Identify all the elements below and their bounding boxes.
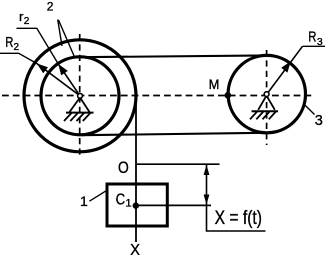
svg-text:3: 3 (315, 113, 323, 129)
svg-text:M: M (209, 76, 220, 92)
svg-text:2: 2 (47, 0, 54, 13)
svg-text:3: 3 (317, 36, 323, 48)
svg-text:R: R (5, 34, 13, 51)
svg-text:C: C (116, 191, 126, 208)
svg-text:1: 1 (125, 198, 131, 210)
svg-text:R: R (308, 28, 316, 45)
svg-text:X = f(t): X = f(t) (215, 208, 262, 229)
svg-text:2: 2 (14, 42, 20, 53)
svg-text:X: X (130, 242, 141, 255)
svg-text:2: 2 (24, 16, 30, 27)
svg-text:1: 1 (80, 193, 88, 209)
svg-text:O: O (118, 158, 129, 177)
